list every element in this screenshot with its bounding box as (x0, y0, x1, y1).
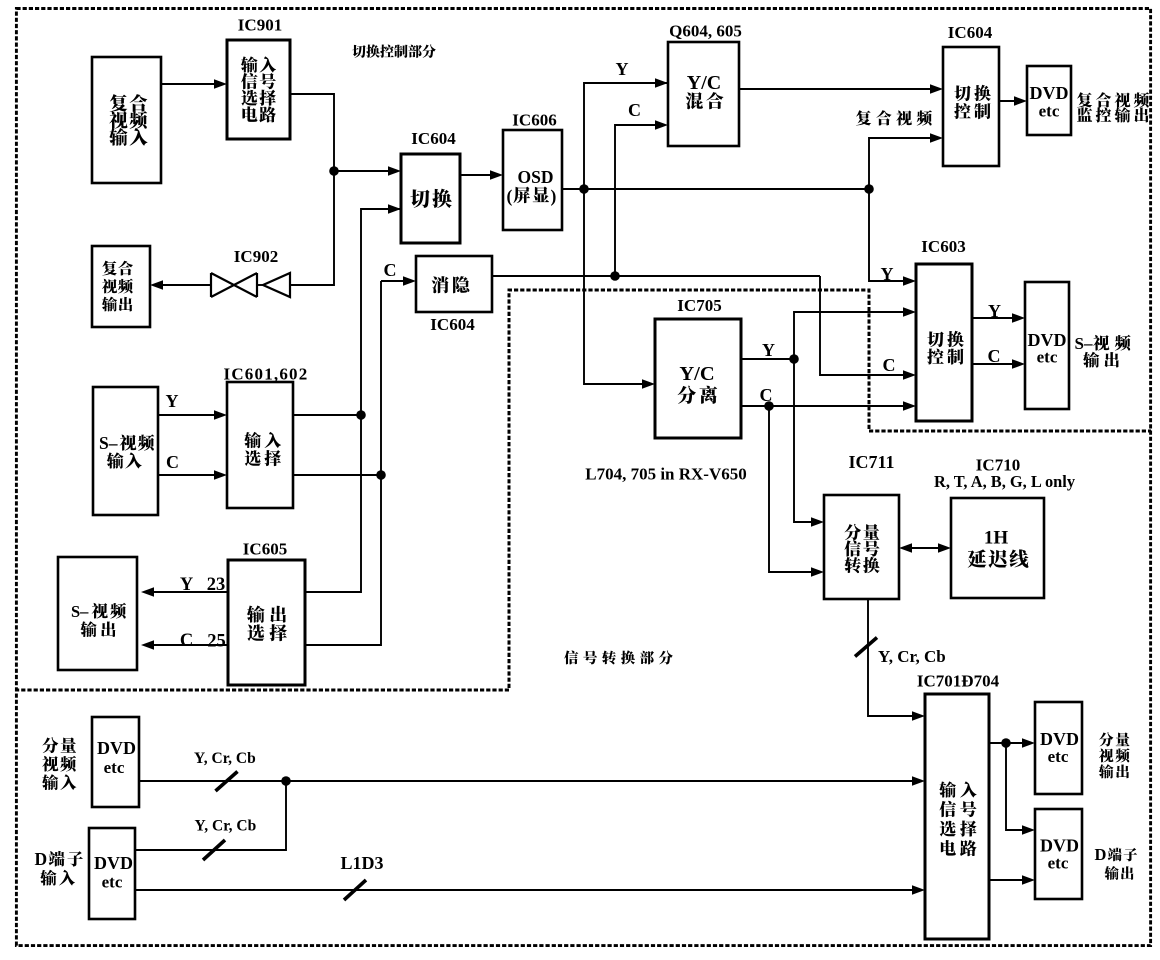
wire IC603 C out to DVD (972, 359, 1025, 369)
wire bidirectional IC711-IC710 (899, 543, 951, 553)
label composite video output text (102, 261, 133, 312)
label IC901 text 输入信号选择电路 (241, 56, 276, 122)
svg-text:S–: S– (99, 433, 118, 453)
svg-text:Y: Y (988, 301, 1001, 321)
wire d-terminal bus to IC701-704 (135, 889, 918, 891)
region divider dashed (switching-control / signal-conversion) (15, 290, 1151, 690)
node junction Y net (356, 410, 366, 420)
label blanking text 消隐 (432, 276, 470, 293)
wire Y/C sep C out to IC603 in4 (741, 405, 909, 407)
svg-text:DVD: DVD (97, 738, 136, 758)
wire blanking output horizontal (492, 275, 820, 277)
svg-text:IC604: IC604 (948, 23, 993, 42)
svg-text:1H: 1H (984, 528, 1009, 549)
svg-text:Y/C: Y/C (679, 363, 714, 385)
svg-text:Y/C: Y/C (687, 72, 721, 94)
svg-text:L1D3: L1D3 (341, 853, 384, 873)
svg-text:C: C (760, 385, 773, 405)
arrowhead switch input2 (388, 204, 401, 214)
svg-text:IC901: IC901 (238, 16, 282, 35)
slash mark Y Cr Cb bus (855, 638, 877, 657)
svg-text:Q604, 605: Q604, 605 (669, 22, 742, 41)
svg-text:IC604: IC604 (411, 129, 456, 148)
node junction C out (764, 401, 774, 411)
wire C line to blanking (381, 276, 416, 286)
svg-text:C: C (883, 355, 896, 375)
block IC604 blanking 消隐 (416, 256, 492, 312)
wire composite video up to IC604 switch-control (869, 133, 943, 189)
svg-text:DVD: DVD (1030, 83, 1069, 103)
svg-text:C: C (384, 260, 397, 280)
wire branch to IC604 switch input1 (334, 166, 401, 176)
wire OSD output horizontal (562, 188, 869, 190)
svg-text:): ) (551, 186, 557, 206)
label s-video input text (99, 433, 154, 469)
wire IC605 Y out to s-video-out (141, 587, 228, 597)
svg-text:25: 25 (207, 632, 226, 652)
block DVD etc monitor out (1027, 66, 1071, 135)
wire IC902 triangle to bowtie (257, 284, 263, 286)
svg-text:Y, Cr, Cb: Y, Cr, Cb (195, 818, 257, 835)
svg-text:etc: etc (104, 758, 125, 777)
wire Y/C mix output to IC604 switch-control (739, 84, 943, 94)
label input select text 输入选择 (244, 432, 281, 466)
block IC705 Y/C separate (655, 319, 741, 438)
label IC701-704 text 输入信号选择电路 (939, 781, 977, 856)
arrowhead IC701 input3 (912, 885, 925, 895)
block Q604-605 Y/C mix (668, 42, 739, 146)
node junction C net (376, 470, 386, 480)
wire C branch up to Y/C mix (615, 120, 668, 276)
label OSD subtitle (屏显) (507, 186, 557, 206)
wire IC701 out2 to DVD d-terminal-out (989, 875, 1035, 885)
svg-text:Y: Y (180, 575, 194, 595)
label DVD etc d-terminal-out text (1040, 836, 1079, 873)
wire IC902 to composite-out (150, 280, 211, 290)
svg-text:DVD: DVD (1040, 729, 1079, 749)
label D-terminal output D端子输出 (1095, 845, 1138, 880)
wire IC901 output down to IC902 branch (290, 94, 334, 285)
wire d-terminal Y-Cr-Cb up to component bus (135, 781, 286, 850)
arrowhead IC603 Y input (903, 276, 916, 286)
wire switch to OSD (460, 170, 503, 180)
svg-text:etc: etc (1048, 854, 1069, 873)
label output select text 输出选择 (247, 605, 287, 641)
wire IC711 out down to IC701-704 (868, 599, 925, 721)
block composite video output 复合视频输出 (92, 246, 150, 327)
svg-text:IC601,602: IC601,602 (224, 365, 309, 384)
block composite video input 复合视频输入 (92, 57, 161, 183)
wire s-video Y to input-select (158, 410, 227, 420)
label composite video input text (109, 94, 147, 146)
node junction Y out (789, 354, 799, 364)
label IC603 switch control text (927, 331, 964, 365)
svg-text:IC701Ð704: IC701Ð704 (917, 672, 1000, 691)
block IC606 OSD (503, 130, 562, 230)
amplifier IC902 left triangle (263, 273, 290, 297)
arrowhead IC603 input4 (903, 401, 916, 411)
node junction OSD-out / composite-right (864, 184, 874, 194)
block IC605 output select (228, 560, 305, 685)
svg-text:Y: Y (616, 59, 629, 79)
label D-terminal input D端子输入 (35, 849, 83, 886)
slash mark component bus (216, 772, 238, 792)
svg-text:C: C (628, 100, 641, 120)
node junction blanking-out / C-branch (610, 271, 620, 281)
svg-text:Y: Y (881, 264, 894, 284)
wire C down to IC711 in2 (769, 406, 824, 577)
node junction component bus (281, 776, 291, 786)
wire Y/C sep Y out (741, 358, 794, 360)
wire component bus to IC701-704 (139, 780, 918, 782)
node junction IC901-line / switch-input (329, 166, 339, 176)
label composite video 复合视频 mid (856, 110, 932, 125)
label DVD etc component-out text (1040, 729, 1079, 766)
svg-text:R, T, A, B, G, L only: R, T, A, B, G, L only (934, 472, 1076, 491)
svg-text:C: C (988, 346, 1001, 366)
block DVD etc d-terminal out (1035, 809, 1082, 899)
block IC901 input signal select circuit (227, 40, 290, 139)
label Y/C separate line2 分离 (678, 386, 718, 404)
wire IC605 C out to s-video-out (141, 640, 228, 650)
block DVD etc s-video out (1025, 282, 1069, 409)
wire IC701 out to DVD component-out (989, 738, 1035, 748)
svg-text:23: 23 (207, 575, 226, 595)
label DVD etc s-video text (1028, 330, 1067, 367)
wire Y net vertical (305, 209, 401, 592)
label IC604 switch control text (954, 85, 991, 119)
svg-text:D: D (35, 849, 48, 869)
wire IC604 switch-control to DVD monitor (999, 96, 1027, 106)
arrowhead IC701 input2 (912, 776, 925, 786)
label delay line 延迟线 (968, 549, 1029, 568)
svg-text:C: C (180, 631, 193, 651)
label DVD etc monitor text (1030, 83, 1069, 121)
svg-text:etc: etc (1037, 348, 1058, 367)
slash mark L1D3 bus (344, 880, 366, 900)
svg-text:(: ( (507, 186, 513, 206)
label composite video monitor output 复合视频监控输出 (1077, 92, 1149, 122)
label IC711 text 分量信号转换 (844, 524, 879, 573)
label s-video output text (71, 602, 126, 637)
block DVD etc d-terminal in (89, 828, 135, 919)
svg-text:S–: S– (1075, 334, 1093, 353)
wire composite down to IC603 Y input (869, 189, 909, 281)
svg-text:L704, 705 in RX-V650: L704, 705 in RX-V650 (585, 465, 747, 484)
block IC604 switch 切换 (401, 154, 460, 243)
svg-text:IC705: IC705 (677, 296, 721, 315)
label Y/C mix line2 混合 (686, 92, 724, 109)
label component video input 分量视频输入 (42, 737, 76, 790)
block IC601-602 input select (227, 382, 293, 508)
node junction component out (1001, 738, 1011, 748)
wire IC603 Y out to DVD (972, 313, 1025, 323)
label DVD etc component-in text (97, 738, 136, 777)
label DVD etc d-terminal-in text (94, 853, 133, 892)
wire input-select Y out (293, 414, 361, 416)
svg-text:OSD: OSD (518, 167, 554, 187)
slash mark d-terminal component (203, 840, 225, 860)
svg-text:Y: Y (166, 391, 179, 411)
wire C net vertical (305, 281, 381, 645)
block DVD etc component in (92, 717, 139, 807)
wire composite-in to IC901 (161, 79, 227, 89)
amplifier IC902 bowtie symbol (211, 273, 257, 297)
wire Y to IC603 in2 and IC711 in1 (794, 307, 916, 527)
block IC701-704 input signal select circuit (925, 694, 989, 939)
label section switching-control 切换控制部分 (352, 44, 436, 58)
svg-text:IC606: IC606 (512, 111, 556, 130)
block s-video input S-视频输入 (93, 387, 158, 515)
svg-text:Y, Cr, Cb: Y, Cr, Cb (878, 647, 946, 666)
svg-text:DVD: DVD (94, 853, 133, 873)
wire branch down to DVD d-terminal-out (1006, 743, 1035, 835)
block IC603 switch control 切换控制 (916, 264, 972, 421)
label switch text 切换 (410, 189, 451, 208)
svg-text:Y, Cr, Cb: Y, Cr, Cb (194, 750, 256, 767)
svg-text:IC711: IC711 (848, 452, 894, 472)
svg-text:IC604: IC604 (430, 315, 475, 334)
node junction OSD-out / Y-branch (579, 184, 589, 194)
svg-text:IC603: IC603 (921, 237, 965, 256)
svg-text:Y: Y (762, 340, 775, 360)
wire input-select C out (293, 474, 381, 476)
svg-text:C: C (166, 452, 179, 472)
svg-text:etc: etc (102, 873, 123, 892)
svg-text:etc: etc (1048, 747, 1069, 766)
label section signal-conversion 信号转换部分 (564, 650, 673, 664)
svg-text:S–: S– (71, 602, 89, 621)
label s-video output right S-视频输出 (1075, 334, 1131, 368)
svg-text:IC902: IC902 (234, 247, 278, 266)
svg-text:DVD: DVD (1040, 836, 1079, 856)
wire blanking line down to IC603 C input (820, 276, 916, 380)
block IC710 1H delay line (951, 498, 1044, 598)
block DVD etc component out (1035, 702, 1082, 794)
svg-text:etc: etc (1039, 102, 1060, 121)
block IC711 component signal convert (824, 495, 899, 599)
block s-video output S-视频输出 (58, 557, 137, 670)
block IC604 switch control 切换控制 (943, 47, 999, 166)
wire Y branch up to Y/C mix and down to Y/C separate (584, 78, 668, 389)
svg-text:IC605: IC605 (243, 540, 287, 559)
wire s-video C to input-select (158, 470, 227, 480)
label component video output 分量视频输出 (1099, 732, 1130, 778)
svg-text:D: D (1095, 845, 1107, 864)
